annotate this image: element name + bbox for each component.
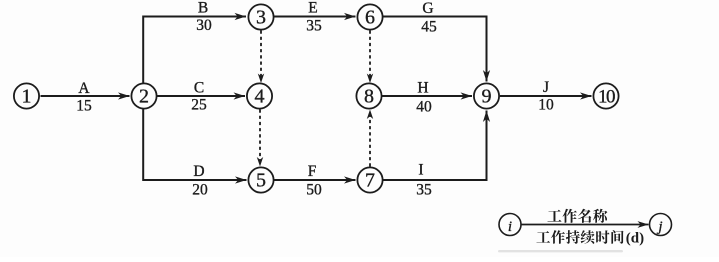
node 4 [247,83,272,108]
svg-text:G: G [422,0,433,17]
dashed dummy 6-8 (after 6) [367,31,373,84]
svg-text:8: 8 [364,86,374,108]
svg-text:6: 6 [365,7,375,29]
scan smudge (decorative skipped label) [498,250,623,252]
svg-text:15: 15 [76,98,92,115]
node j (legend) [650,214,672,236]
svg-text:B: B [198,0,208,17]
wire B 2-3 [143,13,246,84]
svg-text:5: 5 [256,170,266,192]
wire A 1-2 [41,92,130,99]
node 8 [356,83,381,108]
node 9 [474,83,499,108]
wire H 8-9 [382,92,472,99]
node 5 [248,167,273,192]
node 7 [357,167,382,192]
wire J 9-10 [500,92,592,99]
legend text 工作名称 [547,209,607,223]
legend text 工作持续时间(d) [536,230,644,246]
svg-text:2: 2 [139,86,149,108]
svg-text:D: D [193,163,204,180]
svg-text:10: 10 [598,87,615,108]
svg-text:3: 3 [256,7,266,29]
svg-text:i: i [508,219,512,235]
node 3 [248,4,273,29]
svg-text:I: I [418,162,423,179]
svg-text:40: 40 [416,99,432,116]
svg-text:35: 35 [416,182,432,199]
node 6 [357,4,382,29]
svg-text:50: 50 [306,182,322,199]
dashed dummy 3-4 (after 3) [258,31,264,84]
wire C 2-4 [157,92,245,99]
svg-text:20: 20 [192,182,208,199]
svg-text:J: J [543,79,549,96]
dashed dummy 4-5 (after 4) [257,110,263,167]
svg-text:C: C [194,80,204,97]
svg-text:A: A [78,80,90,97]
svg-text:H: H [417,80,428,97]
node i (legend) [499,214,521,236]
node 10 [593,83,618,108]
wire I 7-9 [383,111,490,181]
svg-text:30: 30 [196,17,212,34]
wire legend arrow i-j [521,221,649,228]
svg-text:35: 35 [306,18,322,35]
wire F 5-7 [274,176,356,183]
svg-text:25: 25 [191,97,207,114]
svg-text:45: 45 [421,19,437,36]
wire D 2-5 [143,109,246,184]
wire G 6-9 [383,17,490,82]
svg-text:9: 9 [482,86,492,108]
dashed dummy 7-8 (after 7) [367,110,373,167]
svg-text:7: 7 [365,170,375,192]
svg-text:(d): (d) [626,231,644,247]
svg-text:10: 10 [538,97,554,114]
svg-text:E: E [308,0,317,17]
wire E 3-6 [274,13,356,20]
svg-text:1: 1 [22,86,32,108]
svg-text:4: 4 [255,86,265,108]
node 1 [14,83,39,108]
svg-text:F: F [308,163,317,180]
node 2 [131,83,156,108]
